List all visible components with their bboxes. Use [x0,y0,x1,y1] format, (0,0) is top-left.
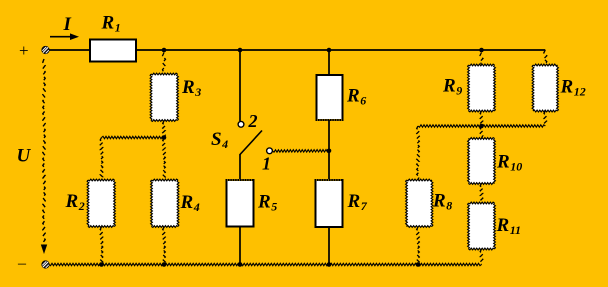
wire R8 to bottom [417,227,420,265]
wire top to switch [239,50,241,121]
wire R6 to R7 [328,120,330,180]
resistor R11 [468,202,496,250]
wire R7 to bottom [328,227,330,265]
wire row C to R8 [417,126,420,180]
node C [479,124,484,129]
node bottom-R2 [99,262,104,267]
wire R12 down to row C [544,111,547,126]
wire down to R2 [100,138,103,180]
wire top to R9 (dashed) [480,53,483,65]
resistor R4 [151,179,179,227]
wire + to R1 [49,49,90,51]
svg-text:+: + [19,41,29,60]
wire R5 to bottom [239,227,241,265]
svg-text:–: – [17,255,27,272]
resistor R5 [227,180,254,227]
wire row C horizontal [418,125,545,127]
wire node C to R10 [480,126,483,138]
node bottom-R8 [416,262,421,267]
wire R10 to R11 [480,184,483,204]
wire corner to R12 (dashed) [544,50,547,65]
resistor R2 [87,179,115,227]
resistor R3 [150,73,178,121]
node B (switch junction) [327,149,332,154]
dotted bottom edge R6 [317,119,342,121]
svg-text:1: 1 [262,154,271,174]
resistor R8 [406,179,433,227]
wire R2 to bottom [100,227,103,265]
dotted top edge R7 [316,179,342,181]
resistor R6 [317,75,343,120]
current arrow I [50,33,79,40]
wire node A to R4 [163,138,166,180]
switch S4 contact 1 [267,148,273,154]
wire node A to R2 column [102,136,165,138]
terminal plus (+) [42,46,49,53]
voltage arrow U [41,59,47,254]
svg-text:2: 2 [248,111,258,131]
switch S4 contact 2 [238,121,244,127]
resistor R12 [532,64,558,112]
resistor R10 [468,138,496,185]
node bottom-R5 [238,262,243,267]
node top-S4 [238,48,243,53]
svg-text:U: U [17,146,32,167]
resistor R9 [468,64,496,112]
node bottom-R7 [327,262,332,267]
wire bottom rail [49,263,482,265]
switch S4 blade [240,131,262,155]
wire R3 to node A [163,121,166,138]
node top-R3 [162,48,167,53]
resistor R1 [90,40,136,62]
wire top to R3 (dashed) [163,53,166,74]
terminal minus (-) [42,261,49,268]
resistor R7 [316,180,343,227]
node top-R6 [327,48,332,53]
wire R4 to bottom [163,227,166,265]
wire top to R6 [328,50,330,76]
wire contact1 to node B [273,150,330,153]
node A (R2 branch) [162,135,167,140]
node bottom-R4 [162,262,167,267]
dotted top edge R5 [227,179,253,181]
wire top rail [136,49,545,51]
svg-text:I: I [63,14,72,35]
wire R11 to bottom [480,249,483,265]
node top-R9 [479,48,484,53]
wire R9 to node C [480,111,483,126]
wire switch to R5 [239,154,241,180]
